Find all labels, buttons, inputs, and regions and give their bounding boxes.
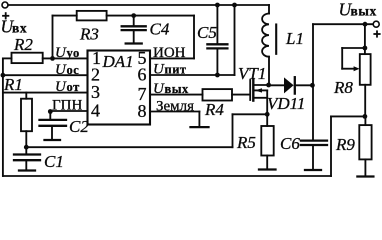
svg-text:вх: вх [12,21,27,36]
svg-text:VD11: VD11 [267,94,305,113]
svg-text:C5: C5 [197,23,217,42]
svg-text:R8: R8 [333,78,353,97]
svg-text:R2: R2 [13,35,33,54]
svg-text:уо: уо [67,46,80,60]
svg-text:вых: вых [351,4,377,19]
svg-text:U: U [55,62,67,78]
svg-text:ИОН: ИОН [153,45,186,61]
svg-text:U: U [55,45,67,61]
svg-text:3: 3 [91,82,100,102]
svg-text:R3: R3 [79,25,99,44]
svg-text:C6: C6 [280,134,300,153]
svg-text:C4: C4 [150,20,170,39]
svg-text:C2: C2 [69,117,89,136]
svg-text:6: 6 [138,65,147,85]
svg-text:L1: L1 [285,29,304,48]
svg-text:4: 4 [91,101,100,121]
svg-text:U: U [153,81,165,97]
svg-text:8: 8 [138,101,147,121]
svg-text:DA1: DA1 [102,52,134,71]
svg-text:U: U [55,79,67,95]
svg-text:R5: R5 [236,133,256,152]
svg-text:ос: ос [67,63,80,77]
svg-text:пит: пит [165,63,187,77]
svg-text:C1: C1 [44,152,64,171]
svg-text:Земля: Земля [156,99,194,115]
svg-text:от: от [67,80,80,94]
svg-text:R1: R1 [3,75,23,94]
svg-text:R9: R9 [335,135,355,154]
svg-text:R4: R4 [204,100,224,119]
svg-text:вых: вых [165,82,190,96]
svg-text:ГПН: ГПН [52,98,83,114]
svg-text:VT1: VT1 [238,64,266,83]
svg-text:U: U [153,62,165,78]
